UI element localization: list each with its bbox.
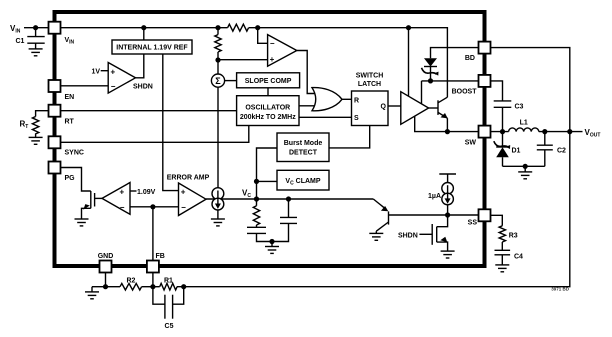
resistor R1 xyxy=(153,278,177,290)
wire GND pin down xyxy=(105,273,107,287)
wire RT pin to external resistor xyxy=(36,111,49,117)
wire error amp output to VC xyxy=(206,198,257,200)
node dot GND junction xyxy=(103,284,108,289)
wire SS line xyxy=(389,214,479,216)
svg-text:+: + xyxy=(181,187,186,196)
block Burst Mode DETECT xyxy=(277,133,329,162)
node dot VIN/sense-right xyxy=(255,25,260,30)
IC boundary xyxy=(55,12,485,266)
wire GND dot to R2 xyxy=(106,286,121,288)
node dot FB xyxy=(150,204,155,209)
capacitor C3 xyxy=(494,101,524,132)
resistor top sense divider vertical xyxy=(215,28,221,60)
pin GND xyxy=(98,253,114,273)
svg-text:LATCH: LATCH xyxy=(358,81,381,88)
op-amp power good comparator xyxy=(102,183,130,215)
pin SS xyxy=(468,209,491,226)
pin BD xyxy=(465,42,491,62)
svg-text:EN: EN xyxy=(65,94,75,101)
transistor clamp PNP xyxy=(376,206,388,233)
block SLOPE COMP xyxy=(237,73,300,88)
svg-text:RT: RT xyxy=(20,120,29,131)
svg-text:SHDN: SHDN xyxy=(133,84,153,91)
wire to output ground xyxy=(524,166,526,172)
op-amp U-SHDN enable comparator xyxy=(108,63,135,94)
wire driver bottom to SW rail xyxy=(415,116,479,132)
svg-text:OSCILLATOR: OSCILLATOR xyxy=(245,105,290,112)
transistor SHDN MOSFET xyxy=(432,215,447,251)
wire VIN to driver top xyxy=(408,28,410,97)
wire oscillator to OR gate input xyxy=(299,105,321,107)
wire VC to clamp PNP emitter xyxy=(373,199,385,209)
svg-text:Σ: Σ xyxy=(215,76,221,86)
summer sigma xyxy=(211,74,224,87)
wire to current comparator plus input xyxy=(218,59,268,61)
label figure number xyxy=(551,287,570,292)
wire SHDN comparator output to REF box bottom xyxy=(136,54,144,78)
node VIN external label xyxy=(10,24,21,35)
wire BD pin to VOUT xyxy=(491,48,570,132)
wire BOOST pin to C3 xyxy=(491,81,503,101)
svg-text:C3: C3 xyxy=(515,104,524,111)
wire SS pin to R3 xyxy=(491,215,503,226)
wire sigma to slope comp box xyxy=(225,80,237,82)
node dot R1 output side xyxy=(181,284,186,289)
wire latch Q to driver xyxy=(388,105,401,107)
ground below C4 xyxy=(495,265,509,272)
block INTERNAL 1.19V REF xyxy=(112,40,192,54)
wire BD pin to internal boost diode xyxy=(431,48,479,59)
node dot VC filter cap xyxy=(286,196,291,201)
svg-text:R: R xyxy=(354,97,359,104)
wire SW pin to output filter xyxy=(491,131,509,133)
wire FB node to error amp inverting input xyxy=(153,206,179,208)
svg-text:−: − xyxy=(181,203,186,212)
wire to compensation ground xyxy=(271,242,273,247)
wire GND to system ground xyxy=(92,286,106,288)
inductor L1 xyxy=(509,120,539,132)
wire EN to comparator xyxy=(61,85,109,87)
ground compensation network xyxy=(265,247,279,254)
wire burst mode detect to VC xyxy=(257,148,278,199)
svg-text:VIN: VIN xyxy=(65,37,75,46)
node dot VIN/REF xyxy=(141,25,146,30)
current source 1uA soft start xyxy=(428,183,453,205)
label SHDN gate xyxy=(398,232,432,239)
ground below C1 xyxy=(29,49,43,56)
wire slope comp to oscillator xyxy=(267,88,269,96)
pin BOOST xyxy=(452,75,491,95)
svg-text:DETECT: DETECT xyxy=(289,150,318,157)
op-amp current comparator xyxy=(268,35,297,67)
svg-text:Q: Q xyxy=(381,104,387,111)
wire REF box top connector xyxy=(143,28,145,40)
transistor Q power NPN xyxy=(438,97,448,131)
svg-text:VIN: VIN xyxy=(10,24,21,35)
block OSCILLATOR 200kHz TO 2MHz xyxy=(237,96,299,126)
label ERROR AMP xyxy=(167,175,210,182)
svg-text:C5: C5 xyxy=(165,323,174,330)
svg-text:3971 BD: 3971 BD xyxy=(551,287,570,292)
label SHDN xyxy=(133,84,153,91)
ground output filter xyxy=(518,172,532,179)
node dot FB divider xyxy=(150,284,155,289)
capacitor VC high frequency xyxy=(272,199,297,242)
node dot VOUT junction xyxy=(567,129,572,134)
node VOUT label xyxy=(585,128,601,139)
svg-text:PG: PG xyxy=(65,175,76,182)
wire BOOST to driver top xyxy=(421,81,423,104)
svg-text:C1: C1 xyxy=(16,38,25,45)
svg-text:VOUT: VOUT xyxy=(585,128,601,139)
resistor R2 xyxy=(120,278,142,290)
svg-text:C2: C2 xyxy=(557,148,566,155)
svg-text:GND: GND xyxy=(98,253,114,260)
wire L1 to VOUT xyxy=(539,131,583,133)
wire VIN input xyxy=(24,27,49,29)
node dot C2 junction xyxy=(542,129,547,134)
svg-text:ERROR AMP: ERROR AMP xyxy=(167,175,210,182)
ground below RT xyxy=(29,137,43,144)
node dot VC clamp junction xyxy=(254,179,259,184)
capacitor C5 feedforward xyxy=(153,287,184,330)
svg-text:SYNC: SYNC xyxy=(65,150,84,157)
block switch latch xyxy=(352,91,389,126)
wire FB pin down xyxy=(152,273,154,287)
wire latch bottom to burst mode detect xyxy=(329,126,370,148)
ground below PG MOSFET xyxy=(75,219,89,226)
gate OR xyxy=(312,88,342,111)
capacitor C2 xyxy=(537,132,566,167)
node dot SW external junction xyxy=(500,129,505,134)
wire OR output to latch R input xyxy=(342,98,352,100)
pin SYNC xyxy=(49,136,84,156)
wire driver output to NPN base xyxy=(429,107,438,109)
svg-text:L1: L1 xyxy=(520,120,528,127)
wire sigma to slope current source xyxy=(217,87,219,188)
node dot VC compensation xyxy=(254,196,259,201)
transistor PG MOSFET xyxy=(82,191,103,219)
wire VIN rail inside IC xyxy=(61,27,228,29)
label RT xyxy=(20,120,29,131)
svg-text:+: + xyxy=(111,67,116,76)
wire internal supply bar 1uA xyxy=(439,174,456,183)
current source error amp output stage xyxy=(212,188,224,210)
svg-text:BD: BD xyxy=(465,55,475,62)
wire SYNC to oscillator bottom xyxy=(61,126,249,143)
label SWITCH LATCH xyxy=(356,72,384,88)
resistor RT external xyxy=(32,117,38,138)
wire oscillator to latch S input xyxy=(299,116,352,118)
node dot SS junction xyxy=(445,212,450,217)
op-amp error amplifier xyxy=(179,183,207,216)
arrow optional-diode marker xyxy=(422,68,439,76)
ground system xyxy=(85,287,99,299)
resistor sense (in VIN rail) xyxy=(228,24,249,31)
svg-text:RT: RT xyxy=(65,119,75,126)
node dot emitter SW junction xyxy=(445,129,450,134)
arrow optional-diode marker D1 xyxy=(494,141,510,149)
svg-text:+: + xyxy=(120,187,125,196)
svg-text:R2: R2 xyxy=(127,278,136,285)
pin RT xyxy=(49,105,75,126)
diode internal boost xyxy=(424,58,437,81)
node dot VIN/sense-left xyxy=(215,25,220,30)
wire current source to ground xyxy=(217,210,219,219)
svg-text:+: + xyxy=(270,55,275,64)
capacitor C1 xyxy=(16,28,45,49)
wire PG pin to MOSFET drain xyxy=(61,168,91,192)
wire VC clamp to VC xyxy=(257,180,278,182)
pin SW xyxy=(465,126,491,147)
capacitor compensation RC xyxy=(247,227,272,241)
wire node to sigma summer xyxy=(217,60,219,74)
node dot VIN/driver xyxy=(406,25,411,30)
wire D1/C2 common ground xyxy=(503,165,545,167)
node dot boost diode junction xyxy=(428,78,433,83)
svg-text:R3: R3 xyxy=(509,233,518,240)
wire R1 to VOUT xyxy=(177,134,570,287)
svg-text:Burst Mode: Burst Mode xyxy=(284,140,323,147)
wire VIN rail right of sense resistor xyxy=(249,28,448,98)
svg-text:1µA: 1µA xyxy=(428,193,441,200)
ground clamp PNP collector xyxy=(369,233,383,240)
svg-text:SWITCH: SWITCH xyxy=(356,72,384,79)
pin FB xyxy=(147,253,165,273)
wire 1uA source to SS line xyxy=(447,205,449,215)
svg-text:VC: VC xyxy=(242,189,251,200)
svg-text:C4: C4 xyxy=(514,254,523,261)
resistor R3 xyxy=(499,226,518,251)
capacitor C4 xyxy=(495,250,524,265)
svg-text:1.09V: 1.09V xyxy=(137,189,156,196)
svg-text:SW: SW xyxy=(465,139,477,146)
node dot comparator plus input xyxy=(215,57,220,62)
pin PG xyxy=(49,162,76,183)
node dot compensation ground junction xyxy=(269,239,274,244)
svg-text:200kHz TO 2MHz: 200kHz TO 2MHz xyxy=(240,114,296,121)
node junction C1/VIN xyxy=(33,25,38,30)
wire current comparator output to OR gate xyxy=(297,51,321,94)
wire R2 to FB node xyxy=(142,286,153,288)
svg-text:D1: D1 xyxy=(512,148,521,155)
ground SHDN MOSFET source xyxy=(441,251,455,258)
svg-text:INTERNAL 1.19V REF: INTERNAL 1.19V REF xyxy=(116,45,188,52)
svg-text:BOOST: BOOST xyxy=(452,88,478,95)
resistor compensation RC xyxy=(253,199,259,227)
wire FB vertical to pin xyxy=(152,207,154,261)
pin EN xyxy=(49,80,75,101)
wire BOOST rail xyxy=(422,80,479,82)
svg-text:SLOPE COMP: SLOPE COMP xyxy=(245,78,292,85)
value 1.09V reference xyxy=(130,189,156,196)
node dot output ground junction xyxy=(523,164,528,169)
svg-text:−: − xyxy=(120,203,125,212)
value 1V reference xyxy=(92,69,109,76)
diode D1 catch xyxy=(496,132,520,167)
wire RT to oscillator xyxy=(61,110,237,112)
wire PG comparator inverting input to FB xyxy=(130,206,153,208)
wire sense-right to current comparator minus input xyxy=(258,28,268,44)
svg-text:−: − xyxy=(111,82,116,91)
svg-text:1V: 1V xyxy=(92,69,101,76)
ground below current source xyxy=(211,219,225,226)
svg-text:SS: SS xyxy=(468,220,478,227)
block VC CLAMP xyxy=(277,170,329,190)
wire VC line xyxy=(257,198,374,200)
svg-text:−: − xyxy=(270,39,275,48)
node VC label xyxy=(242,189,251,200)
svg-text:FB: FB xyxy=(156,253,165,260)
pin VIN xyxy=(49,22,75,46)
svg-text:R1: R1 xyxy=(164,278,173,285)
svg-text:SHDN: SHDN xyxy=(398,232,418,239)
op-amp driver xyxy=(401,92,429,125)
svg-text:S: S xyxy=(354,115,359,122)
wire 1.19V reference to error amp + input xyxy=(163,54,179,191)
